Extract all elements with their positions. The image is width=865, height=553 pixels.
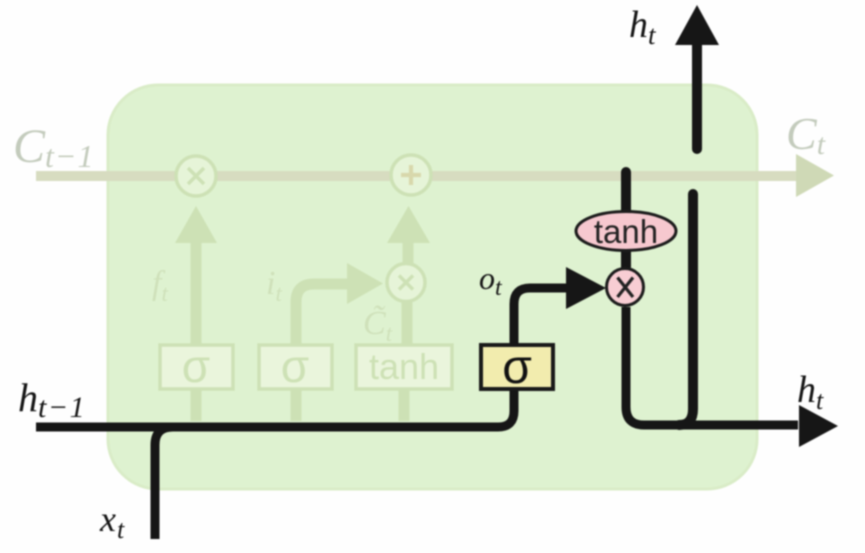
faded input multiply circle — [387, 264, 425, 302]
faded tanh-box line — [402, 300, 413, 346]
cell state arrowhead Ct — [796, 154, 834, 197]
svg-text:σ: σ — [281, 340, 309, 392]
faded sigma box 1 (forget gate) — [160, 345, 233, 389]
svg-text:σ: σ — [182, 340, 210, 392]
output gate sigma box (yellow) — [481, 345, 553, 389]
wire tanh column — [621, 172, 631, 267]
LSTM cell body — [108, 85, 757, 489]
wire sigma to multiply with arrowhead — [514, 288, 566, 345]
faded forget-gate multiply circle — [176, 156, 216, 196]
wire h line bottom (input h_{t-1}) — [36, 389, 514, 427]
output arrowhead h_t right — [799, 405, 838, 447]
faded sigma box 2 (input gate) — [259, 345, 332, 389]
h_t up arrowhead — [675, 5, 719, 45]
tanh oval (pink) — [576, 212, 676, 251]
wire x_t branch — [155, 427, 173, 539]
faded input-gate curved arrow — [296, 284, 347, 346]
faded forget arrow up — [191, 242, 202, 346]
faded add circle — [391, 155, 431, 195]
svg-text:tanh: tanh — [594, 213, 658, 250]
output multiply circle (pink) — [607, 269, 644, 306]
svg-text:σ: σ — [502, 341, 532, 394]
wire h_t branch up — [679, 194, 693, 425]
cell state line C (pale) — [36, 171, 798, 181]
faded candidate arrow up to add — [403, 242, 414, 263]
wire multiply down to output line — [626, 307, 798, 425]
faded stub below sigma2 — [291, 388, 302, 421]
faded tanh box (candidate) — [356, 345, 452, 389]
svg-text:tanh: tanh — [369, 346, 439, 387]
faded stub below sigma1 — [191, 388, 202, 421]
faded stub below tanh box — [399, 388, 410, 421]
wire h_t up arrow shaft — [692, 44, 702, 149]
